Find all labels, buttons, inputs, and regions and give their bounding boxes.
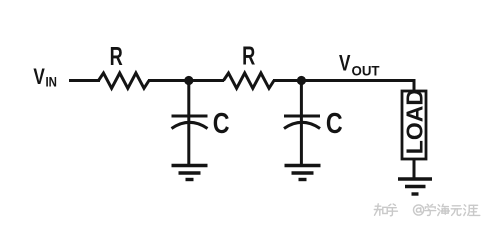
svg-text:C: C — [326, 106, 343, 139]
capacitor C1 lead — [187, 81, 190, 166]
svg-text:V: V — [339, 52, 351, 77]
wire node B to load — [301, 81, 414, 92]
resistor R2 — [224, 73, 275, 88]
ground for C1 — [172, 166, 208, 180]
label VIN — [33, 65, 57, 90]
watermark char ya — [464, 205, 480, 216]
ground for load — [398, 179, 432, 194]
capacitor C2 plates — [284, 116, 320, 129]
capacitor C2 lead — [300, 81, 303, 166]
capacitor C1 plates — [172, 116, 208, 129]
wire R2 to node B — [273, 79, 302, 82]
watermark char hai — [438, 204, 450, 215]
svg-text:OUT: OUT — [352, 63, 381, 78]
wire load to ground — [413, 160, 416, 180]
svg-text:LOAD: LOAD — [402, 89, 428, 154]
svg-text:R: R — [110, 42, 123, 71]
watermark char xue — [425, 204, 436, 215]
watermark char at — [414, 205, 424, 215]
junction node B — [297, 76, 306, 85]
resistor R1 — [99, 73, 150, 88]
wire R1 to node A — [148, 79, 189, 82]
load RL box — [402, 91, 426, 159]
label VOUT — [339, 52, 380, 79]
svg-text:C: C — [213, 106, 230, 139]
watermark char hu — [387, 204, 397, 216]
wire node A to R2 — [189, 79, 224, 82]
watermark char zhi — [374, 204, 387, 216]
ground for C2 — [285, 166, 321, 180]
node VIN input wire — [69, 79, 100, 82]
svg-text:R: R — [242, 41, 255, 70]
watermark zhihu — [374, 204, 480, 216]
watermark char wu — [451, 206, 461, 216]
svg-text:IN: IN — [46, 75, 57, 90]
svg-text:V: V — [33, 65, 45, 90]
junction node A — [184, 76, 193, 85]
